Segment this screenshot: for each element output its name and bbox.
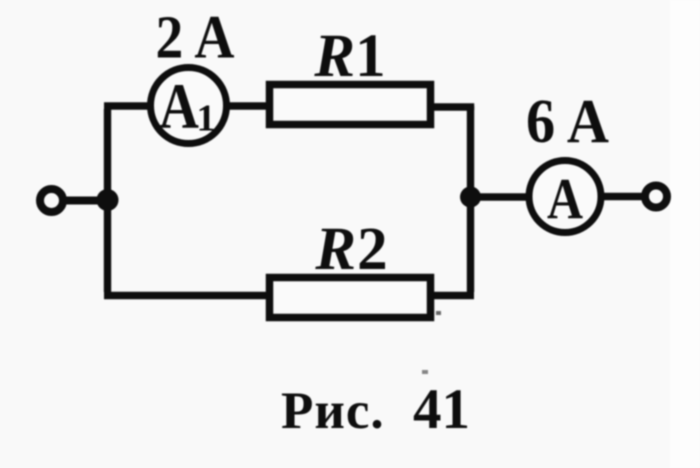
svg-text:2 A: 2 A	[156, 3, 235, 71]
resistor R2	[270, 278, 431, 318]
node B (right junction)	[460, 187, 481, 208]
wire right vertical	[467, 106, 474, 292]
label 6 A (ammeter A2 reading)	[526, 87, 609, 156]
svg-text:1: 1	[197, 98, 216, 140]
wire top-left segment	[104, 102, 148, 109]
svg-text:R2: R2	[314, 216, 388, 283]
wire T1 to node A	[63, 197, 100, 205]
svg-text:A: A	[159, 70, 199, 142]
ammeter A2	[529, 161, 601, 233]
wire ammeter A to terminal T2	[600, 193, 646, 200]
caption Рис. 41	[281, 378, 470, 441]
svg-text:A: A	[547, 167, 583, 231]
terminal T2 (right output)	[645, 186, 667, 208]
wire bottom	[104, 292, 268, 299]
wire A1 to R1	[228, 102, 268, 109]
scan speck at R2 box corner	[436, 311, 441, 315]
wire R2 to right vertical	[433, 292, 474, 299]
svg-text:41: 41	[413, 378, 470, 441]
terminal T1 (left input)	[40, 189, 63, 212]
ammeter A1	[151, 68, 227, 144]
svg-text:Рис.: Рис.	[281, 382, 385, 440]
svg-text:R1: R1	[313, 23, 385, 90]
svg-text:6 A: 6 A	[526, 87, 609, 156]
scan speck above caption	[422, 370, 428, 374]
wire left vertical	[104, 109, 111, 292]
node A (left junction)	[97, 189, 119, 211]
wire node B to ammeter A	[472, 193, 528, 200]
wire R1 to top-right corner	[433, 107, 471, 110]
resistor R1	[270, 85, 431, 125]
label 2 A (ammeter A1 reading)	[156, 3, 235, 71]
